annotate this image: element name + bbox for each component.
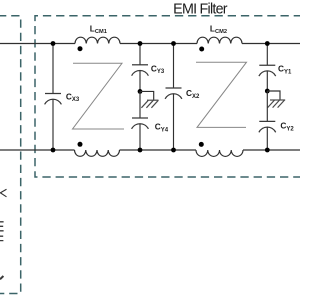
capacitor C_X2 branch wires bbox=[173, 44, 175, 151]
ground 2 tap wire bbox=[267, 91, 280, 100]
LISN box (left dashed boundary, clipped at image left) bbox=[0, 16, 21, 294]
node: ground junction 1 bbox=[138, 89, 143, 94]
ground 2 symbol bbox=[268, 100, 286, 108]
inductor L_CM2 top winding bbox=[197, 37, 242, 43]
capacitor C_X3 plates bbox=[45, 94, 62, 105]
node: C_X3 bottom bbox=[51, 148, 56, 153]
svg-text:LCM1: LCM1 bbox=[90, 24, 107, 36]
svg-text:CY2: CY2 bbox=[280, 121, 294, 133]
wire: top conductor (line) segments bbox=[0, 43, 300, 45]
node: C_X3 top bbox=[51, 41, 56, 46]
capacitor C_X3 branch wires bbox=[52, 44, 54, 151]
svg-text:CY1: CY1 bbox=[278, 64, 292, 76]
capacitor C_Y4 plates bbox=[132, 118, 149, 129]
capacitor C_Y1 branch wire bbox=[266, 44, 268, 92]
node: C_X2 top bbox=[171, 41, 176, 46]
phasing dot L_CM1 bottom bbox=[78, 142, 83, 147]
ground 1 tap wire bbox=[140, 91, 154, 100]
phasing dot L_CM2 top bbox=[199, 47, 204, 52]
EMI filter boundary box (dashed, clipped at image right) bbox=[35, 16, 302, 177]
capacitor C_X2 plates bbox=[165, 88, 182, 99]
wire: bottom conductor (neutral) segments bbox=[0, 149, 300, 151]
svg-text:LCM2: LCM2 bbox=[210, 23, 227, 35]
inductor L_CM2 bottom winding bbox=[196, 150, 243, 156]
node: C_Y2 bottom bbox=[265, 148, 270, 153]
phasing dot L_CM2 bottom bbox=[199, 142, 204, 147]
capacitor C_Y3 branch wire bbox=[139, 44, 141, 92]
svg-text:CX2: CX2 bbox=[186, 88, 200, 100]
node: ground junction 2 bbox=[265, 89, 270, 94]
capacitor C_Y4 branch wire bbox=[139, 91, 141, 150]
node: C_Y1 top bbox=[265, 41, 270, 46]
clipped text fragment 3 (left edge) bbox=[0, 236, 3, 240]
svg-text:CX3: CX3 bbox=[66, 91, 80, 103]
clipped text fragment 1 (left edge) bbox=[0, 189, 7, 197]
coupling symbol Z1 (core of L_CM1) bbox=[73, 63, 125, 129]
coupling symbol Z2 (core of L_CM2) bbox=[196, 62, 247, 127]
capacitor C_Y1 plates bbox=[259, 65, 276, 76]
capacitor C_Y2 branch wire bbox=[266, 91, 268, 150]
capacitor C_Y3 plates bbox=[132, 65, 149, 76]
node: C_Y4 bottom bbox=[138, 148, 143, 153]
inductor L_CM1 bottom winding bbox=[75, 150, 120, 156]
capacitor C_Y2 plates bbox=[259, 121, 276, 132]
clipped text fragment 2 (left edge) bbox=[0, 222, 4, 231]
node: C_X2 bottom bbox=[171, 148, 176, 153]
node: C_Y3 top bbox=[138, 41, 143, 46]
svg-text:CY4: CY4 bbox=[155, 122, 169, 134]
svg-text:CY3: CY3 bbox=[151, 63, 165, 75]
inductor L_CM1 top winding bbox=[75, 37, 120, 43]
ground 1 symbol bbox=[141, 100, 158, 108]
phasing dot L_CM1 top bbox=[78, 46, 83, 51]
clipped text fragment 4 (left edge) bbox=[0, 276, 3, 279]
svg-text:EMI Filter: EMI Filter bbox=[173, 1, 228, 17]
